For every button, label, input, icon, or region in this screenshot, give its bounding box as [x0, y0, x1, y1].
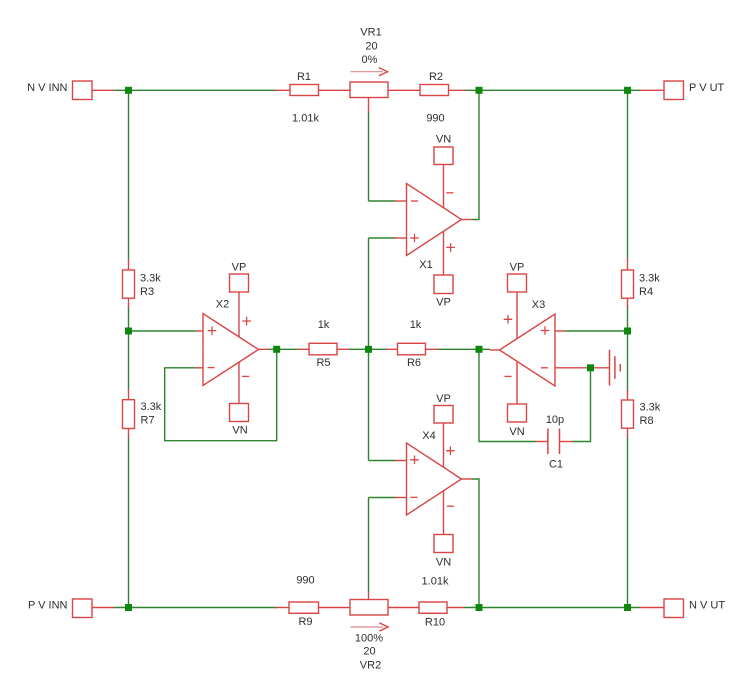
svg-text:R9: R9 [298, 616, 312, 628]
resistor R7 [123, 400, 135, 429]
wire X2 input pin stubs [196, 330, 204, 332]
wire X3 noninverting input to right rail [565, 330, 628, 332]
wire X4 output down to bottom rail [472, 479, 480, 608]
wire R9 leads [275, 607, 289, 609]
svg-text:P V UT: P V UT [689, 82, 725, 94]
svg-text:3.3k: 3.3k [640, 402, 661, 414]
svg-text:VR1: VR1 [360, 27, 381, 39]
wire R8 leads [627, 390, 629, 401]
svg-text:VR2: VR2 [360, 660, 381, 672]
svg-text:R3: R3 [140, 286, 154, 298]
svg-text:100%: 100% [355, 633, 383, 645]
wire X3 input pin stubs [555, 330, 565, 332]
svg-text:R8: R8 [640, 415, 654, 427]
resistor R4 [622, 270, 634, 298]
svg-text:VN: VN [436, 134, 451, 146]
svg-text:20: 20 [363, 646, 375, 658]
potentiometer VR1 wiper arrow [351, 71, 384, 73]
resistor R3 [123, 270, 135, 298]
svg-text:VN: VN [232, 425, 247, 437]
wire R5 to center node [349, 348, 365, 350]
svg-text:1k: 1k [410, 319, 422, 331]
wire VR1 wiper pin [368, 98, 370, 113]
op-amp X3 VN power line [516, 362, 518, 405]
wire R7 leads [128, 389, 130, 401]
wire X2 output to R5 [269, 348, 299, 350]
op-amp X2 [203, 314, 259, 386]
capacitor C1 [547, 429, 549, 455]
wire X2 feedback loop [165, 351, 277, 441]
svg-text:VP: VP [232, 262, 247, 274]
wire X3 output pin stub [490, 349, 500, 351]
node X2 output [273, 346, 280, 353]
svg-text:VN: VN [509, 426, 524, 438]
svg-text:VP: VP [436, 393, 451, 405]
power VP box of X4 [434, 406, 453, 424]
wire X4 inverting input to VR2 wiper [369, 497, 396, 499]
svg-text:VN: VN [436, 557, 451, 569]
svg-text:1k: 1k [318, 319, 330, 331]
wire X4 input pin stubs [395, 460, 407, 462]
svg-text:1.01k: 1.01k [422, 576, 449, 588]
wire X1 output pin stub [462, 219, 473, 221]
wire top rail left segment [113, 89, 277, 91]
wire top rail right segment [465, 89, 641, 91]
power VP box of X2 [230, 274, 249, 292]
svg-text:0%: 0% [362, 54, 378, 66]
wire left rail [128, 90, 130, 260]
svg-text:VP: VP [436, 297, 451, 309]
power VN box of X3 [508, 404, 527, 422]
wire R10 leads [388, 607, 419, 609]
node at X4 output / bottom rail [476, 604, 483, 611]
op-amp X2 VP power line [238, 292, 240, 337]
op-amp X4 VP power line [443, 423, 445, 467]
op-amp X4 [407, 443, 462, 515]
power VP box of X1 [434, 275, 453, 294]
resistor R10 [419, 602, 447, 613]
svg-text:20: 20 [365, 41, 377, 53]
wire C1 right up to X3 inverting node [572, 368, 591, 442]
svg-text:1.01k: 1.01k [292, 113, 319, 125]
svg-text:X3: X3 [532, 299, 545, 311]
svg-text:3.3k: 3.3k [140, 273, 161, 285]
wire R4 leads [627, 258, 629, 271]
power VP box of X3 [508, 274, 527, 292]
wire bottom rail left segment [113, 607, 277, 609]
port N V INN [73, 81, 93, 100]
op-amp X4 VN power line [443, 491, 445, 535]
svg-text:N V INN: N V INN [27, 82, 67, 94]
wire VR1 wiper to X1 inverting input [368, 111, 370, 201]
wire right rail [627, 90, 629, 258]
svg-text:10p: 10p [546, 414, 564, 426]
node X3 output [476, 346, 483, 353]
svg-text:R5: R5 [316, 357, 330, 369]
resistor R5 [309, 343, 337, 355]
wire bottom rail right segment [463, 607, 641, 609]
potentiometer VR1 [350, 82, 388, 98]
wire R5 leads [298, 348, 310, 350]
node at N V INN [125, 87, 132, 94]
node X3 inverting / ground [587, 364, 594, 371]
wire X1 noninverting input to center node [369, 237, 396, 239]
svg-text:R7: R7 [141, 415, 155, 427]
node center [365, 346, 372, 353]
power VN box of X1 [434, 147, 453, 165]
wire X2 noninverting input [129, 330, 197, 332]
op-amp X1 VP power line [443, 232, 445, 276]
op-amp X3 (mirrored) [500, 314, 556, 386]
svg-text:X4: X4 [422, 430, 435, 442]
node at P V INN [125, 604, 132, 611]
wire VR2 wiper pin [368, 592, 370, 600]
svg-text:N V UT: N V UT [689, 600, 725, 612]
resistor R8 [622, 400, 634, 428]
wire R3 leads [128, 259, 130, 271]
wire port NVINN pin [92, 89, 114, 91]
wire port NVUT pin [640, 607, 664, 609]
svg-text:990: 990 [426, 113, 444, 125]
svg-text:990: 990 [296, 575, 314, 587]
port P V INN [73, 599, 93, 618]
wire center node to X4 noninverting input [368, 353, 370, 461]
op-amp X1 VN power line [443, 165, 445, 208]
svg-text:R1: R1 [297, 71, 311, 83]
wire center node to R6 [372, 348, 387, 350]
node at X1 output / top rail [476, 87, 483, 94]
svg-text:R10: R10 [425, 617, 445, 629]
op-amp X2 VN power line [238, 363, 240, 404]
svg-text:C1: C1 [549, 458, 563, 470]
wire R6 to X3 output node [438, 348, 477, 350]
power VN box of X2 [230, 404, 249, 422]
wire X1 input pin stubs [395, 200, 407, 202]
ground [609, 350, 611, 386]
potentiometer VR2 [350, 600, 388, 672]
resistor R2 [420, 85, 449, 96]
resistor R9 [289, 602, 319, 613]
wire port PVUT pin [640, 89, 664, 91]
wire X4 output pin stub [462, 478, 473, 480]
wire X3 output node down to C1 [479, 349, 537, 441]
wire R1 leads [275, 89, 290, 91]
svg-text:R6: R6 [407, 357, 421, 369]
resistor R1 [290, 85, 319, 96]
power VN box of X4 [434, 535, 453, 553]
svg-text:X1: X1 [419, 259, 432, 271]
svg-text:3.3k: 3.3k [141, 401, 162, 413]
svg-text:X2: X2 [216, 299, 229, 311]
node left rail mid [125, 328, 132, 335]
node at P V UT [624, 87, 631, 94]
port N V UT [664, 599, 684, 618]
svg-text:3.3k: 3.3k [639, 273, 660, 285]
svg-text:R4: R4 [639, 286, 653, 298]
node at N V UT [624, 604, 631, 611]
potentiometer VR2 wiper arrow [351, 626, 384, 628]
svg-text:R2: R2 [429, 71, 443, 83]
op-amp X3 VP power line [516, 292, 518, 339]
wire X1 output up to top rail [472, 90, 480, 219]
svg-text:P V INN: P V INN [28, 600, 68, 612]
op-amp X1 [407, 184, 462, 256]
wire C1 leads [536, 441, 548, 443]
port P V UT [664, 81, 684, 100]
resistor R6 [398, 343, 426, 355]
svg-text:VP: VP [510, 262, 525, 274]
wire R6 leads [386, 348, 398, 350]
node right rail mid [624, 328, 631, 335]
wire R2 leads [388, 89, 420, 91]
wire X3 output stub [482, 348, 490, 350]
wire port PVINN pin [92, 607, 114, 609]
wire X2 output pin stub [259, 348, 270, 350]
